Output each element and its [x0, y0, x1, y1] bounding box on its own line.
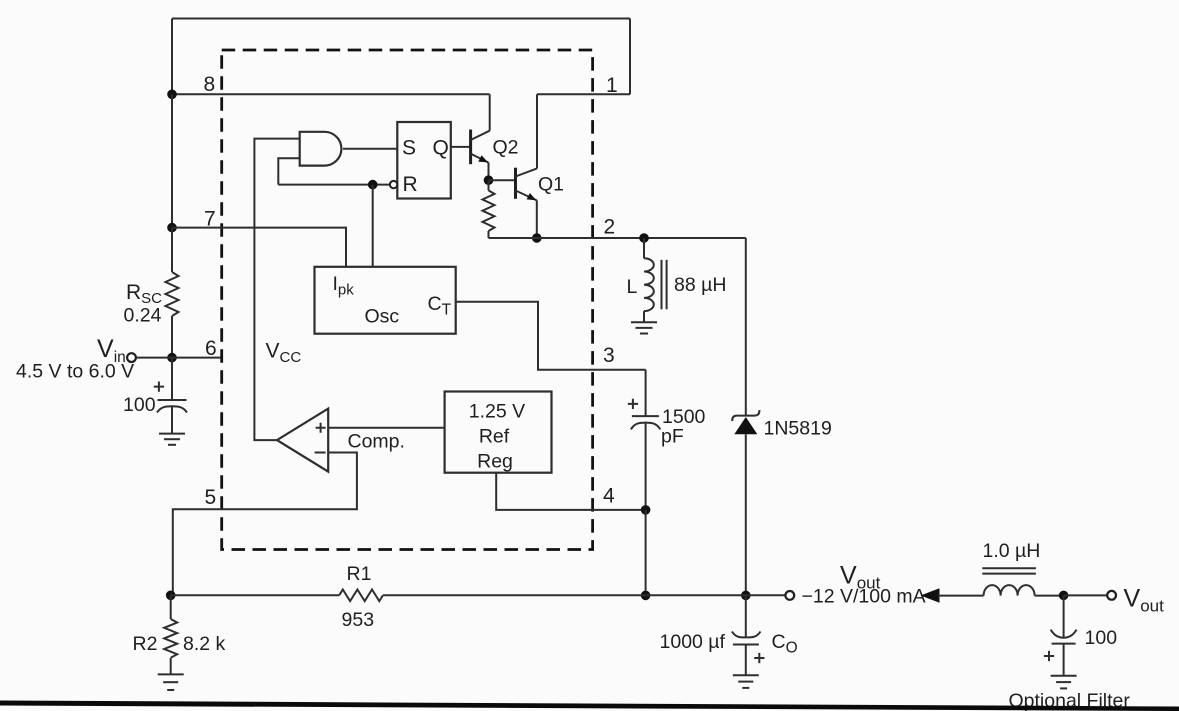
svg-text:3: 3	[603, 344, 615, 367]
wire CT output to pin 3 net	[456, 302, 646, 370]
svg-text:4: 4	[603, 485, 615, 508]
capacitor C4 100 filter	[1051, 595, 1077, 675]
inductor L2 1.0uH filter	[982, 568, 1036, 595]
resistor R2	[164, 595, 177, 674]
ground for C4	[1051, 676, 1077, 689]
capacitor C2 1500pF branch	[631, 370, 660, 510]
wire pin 5 net (comparator minus input to R1/R2 node)	[173, 453, 357, 596]
wire Q2 emitter to node	[488, 163, 490, 181]
resistor R1	[339, 590, 383, 602]
label plus C2	[628, 399, 638, 409]
svg-text:Comp.: Comp.	[348, 431, 405, 453]
diode D1 1N5819	[732, 410, 759, 434]
node R1/R2 junction	[166, 591, 176, 601]
reference regulator block U5	[445, 392, 552, 473]
wire output net right segment	[383, 594, 786, 596]
IC boundary dashed box	[222, 50, 593, 550]
wire Q2 collector to pin 8 bus	[489, 94, 491, 130]
wire Q1 collector to pin 1 wire	[536, 94, 538, 168]
wire pin 2 net horizontal	[489, 237, 746, 239]
ground for Co	[733, 675, 759, 688]
wire Q1 emitter down to pin 2 net	[536, 200, 538, 238]
svg-text:Q: Q	[433, 137, 449, 160]
node pin 7 junction	[167, 223, 177, 233]
svg-text:6: 6	[205, 337, 217, 360]
terminal Vout (regulator output)	[785, 591, 794, 600]
wire comparator output to AND input 1	[254, 139, 299, 441]
svg-text:100: 100	[1085, 627, 1118, 649]
wire left rail (pin 8 node to pin 7 node)	[171, 94, 173, 227]
wire pin 1	[537, 93, 630, 95]
bottom border bar	[0, 701, 1179, 711]
wire top bus (pin 8 to pin 1)	[172, 18, 630, 20]
resistor Rsc	[166, 272, 179, 316]
wire AND output to S input	[343, 148, 397, 150]
svg-text:−12 V/100 mA: −12 V/100 mA	[802, 586, 926, 608]
svg-text:1000 µf: 1000 µf	[660, 631, 726, 653]
label plus Co	[754, 653, 764, 663]
node pin 6 junction	[167, 353, 177, 363]
wire pin 8	[172, 93, 490, 95]
node Q1 emitter junction on pin 2 net	[532, 233, 542, 243]
svg-text:pF: pF	[661, 426, 684, 448]
transistor Q1	[516, 168, 538, 201]
wire left rail top (top bus down to pin 8 node)	[171, 19, 173, 95]
wire right drop (top bus down to pin 1 wire)	[629, 19, 631, 95]
svg-text:1N5819: 1N5819	[764, 418, 832, 440]
node pin 4 junction	[641, 505, 651, 515]
svg-text:100: 100	[123, 394, 156, 416]
svg-text:R2: R2	[133, 633, 158, 655]
label plus C1	[154, 382, 164, 392]
capacitor C1 100uF input	[157, 400, 187, 434]
wire Q output to Q2 base	[451, 146, 471, 148]
svg-text:R: R	[403, 173, 418, 196]
svg-text:R1: R1	[347, 563, 372, 585]
diode D1 branch wire from pin 2	[745, 238, 747, 416]
node diode branch on output net	[741, 591, 751, 601]
svg-text:8: 8	[204, 73, 216, 96]
node inductor L junction on pin 2	[639, 233, 649, 243]
svg-text:2: 2	[604, 216, 616, 239]
wire diode anode down to output net	[745, 434, 747, 595]
wire arrow to filter inductor	[938, 595, 984, 597]
svg-text:Ref: Ref	[479, 426, 510, 448]
capacitor Co branch	[732, 595, 761, 675]
svg-text:S: S	[402, 137, 416, 160]
svg-text:Q1: Q1	[538, 174, 564, 196]
svg-text:1.0 µH: 1.0 µH	[983, 540, 1041, 562]
svg-text:953: 953	[342, 609, 375, 631]
wire pin 4 node down to output net	[645, 510, 647, 596]
arrow from filter to output	[921, 588, 940, 602]
svg-text:0.24: 0.24	[124, 305, 162, 327]
terminal Vout (filter input)	[1107, 591, 1116, 600]
wire left rail (Rsc to pin 6 node)	[171, 316, 173, 358]
R input inverter bubble	[390, 181, 397, 188]
wire output net left segment	[171, 594, 340, 596]
wire left rail (pin 7 node to Rsc)	[171, 228, 173, 272]
svg-text:8.2 k: 8.2 k	[183, 633, 226, 655]
node filter output junction	[1059, 591, 1069, 601]
latch U3 box	[397, 122, 451, 199]
svg-text:Osc: Osc	[365, 306, 400, 328]
oscillator block U4	[315, 267, 456, 334]
wire comparator plus input to reference	[328, 427, 444, 429]
ground for C1	[159, 434, 185, 445]
svg-text:Q2: Q2	[493, 137, 519, 159]
node Q2 emitter / Q1 base junction	[484, 175, 494, 185]
ground for L	[631, 322, 657, 333]
svg-text:Reg: Reg	[477, 451, 513, 473]
wire oscillator to R input	[278, 184, 390, 186]
svg-text:L: L	[627, 276, 638, 298]
svg-text:4.5 V to 6.0 V: 4.5 V to 6.0 V	[16, 361, 134, 383]
wire Vin terminal to pin 6	[136, 357, 222, 359]
wire oscillator junction down to Osc block	[372, 185, 374, 267]
wire filter node to Vout terminal	[1064, 594, 1108, 596]
transistor Q2	[471, 130, 490, 165]
node C2 branch on output net	[641, 591, 651, 601]
label plus C4	[1044, 651, 1054, 661]
svg-text:88 µH: 88 µH	[674, 274, 726, 296]
node oscillator/R junction	[368, 180, 378, 190]
wire AND input 2 to oscillator line	[278, 158, 299, 184]
inductor L	[644, 238, 667, 322]
and gate U2	[300, 132, 342, 166]
svg-text:5: 5	[205, 486, 217, 509]
svg-text:1.25 V: 1.25 V	[469, 401, 525, 423]
node pin 8 junction	[167, 90, 177, 100]
wire pin 7 to Ipk input	[172, 228, 346, 267]
wire pin 6 node to capacitor C1	[171, 358, 173, 400]
resistor base bleed (Q1 base-emitter)	[483, 180, 495, 238]
comparator U1	[277, 409, 328, 472]
svg-text:1: 1	[606, 74, 618, 97]
terminal Vin	[127, 353, 136, 362]
wire node to Q1 base	[489, 179, 516, 181]
wire reference to pin 4 net	[496, 473, 645, 510]
wire filter inductor to filter node	[1035, 595, 1064, 597]
ground for R2	[158, 674, 184, 690]
